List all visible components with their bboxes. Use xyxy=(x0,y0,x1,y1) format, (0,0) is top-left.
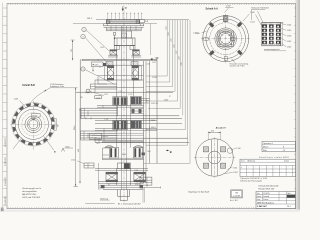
svg-text:B: B xyxy=(151,57,153,61)
svg-text:1.546: 1.546 xyxy=(173,44,175,48)
svg-text:1.545: 1.545 xyxy=(171,38,173,42)
svg-text:60: 60 xyxy=(108,185,110,187)
title text xyxy=(259,185,280,191)
svg-text:45: 45 xyxy=(81,97,83,99)
svg-text:1.545: 1.545 xyxy=(287,30,292,32)
spherical bearing crowns xyxy=(102,141,144,147)
ansicht V vertical slot xyxy=(211,140,217,176)
ansicht V outer circle xyxy=(196,139,234,177)
svg-text:Zeichnung gilt nur für: Zeichnung gilt nur für xyxy=(22,187,41,190)
svg-text:~: ~ xyxy=(255,167,256,169)
svg-text:1.562: 1.562 xyxy=(233,172,238,174)
svg-text:104: 104 xyxy=(211,131,214,133)
svg-text:1.537: 1.537 xyxy=(226,5,231,7)
svg-text:11: 11 xyxy=(283,150,285,152)
svg-text:V: V xyxy=(125,6,127,10)
ansicht V center bore xyxy=(208,151,221,164)
svg-text:1.522: 1.522 xyxy=(119,91,123,93)
svg-text:1: 1 xyxy=(83,29,84,31)
svg-text:~: ~ xyxy=(274,167,275,169)
svg-text:418: 418 xyxy=(78,149,80,152)
planet gear row2 left xyxy=(113,121,127,130)
svg-text:8: 8 xyxy=(283,146,284,148)
svg-text:~: ~ xyxy=(294,171,295,173)
svg-text:~: ~ xyxy=(281,171,282,173)
svg-text:~: ~ xyxy=(288,167,289,169)
housing lines mid xyxy=(97,105,144,107)
left main dimension line tall xyxy=(74,88,79,187)
casing flange long lines xyxy=(81,116,183,124)
scattered small annotations xyxy=(86,47,138,172)
svg-text:1.503: 1.503 xyxy=(135,170,139,172)
right side small labels xyxy=(149,32,197,129)
svg-text:Ø85: Ø85 xyxy=(229,35,232,37)
svg-text:1.544: 1.544 xyxy=(168,32,170,36)
svg-text:Bl. z. Zeichnung 3.545 067: Bl. z. Zeichnung 3.545 067 xyxy=(118,204,141,206)
svg-text:1.512: 1.512 xyxy=(71,159,75,161)
svg-text:Gegenlage mit Sperrkraft: Gegenlage mit Sperrkraft xyxy=(188,191,210,194)
lamella stack xyxy=(262,22,281,45)
revision table xyxy=(240,159,296,176)
svg-text:1.542: 1.542 xyxy=(250,12,255,14)
balloon 2 xyxy=(81,34,111,66)
svg-text:1.523: 1.523 xyxy=(105,119,109,121)
lower clutch drum xyxy=(81,121,118,141)
bearing row 2 left xyxy=(105,66,114,80)
svg-text:MAN Werk Augsburg: MAN Werk Augsburg xyxy=(257,201,274,204)
gear lower leaders xyxy=(13,136,56,153)
ansicht V centerlines xyxy=(194,137,235,178)
top border graduation ticks xyxy=(8,4,294,6)
left small fitting detail xyxy=(71,159,94,168)
lower wide plate lines xyxy=(95,138,189,142)
svg-text:~: ~ xyxy=(288,171,289,173)
callout staircase labels xyxy=(166,26,184,66)
svg-text:125: 125 xyxy=(71,49,73,52)
title block table xyxy=(256,192,296,209)
perpendicularity tolerance frame xyxy=(95,96,102,100)
svg-text:Ansicht V: Ansicht V xyxy=(216,126,227,129)
right drum pocket xyxy=(131,109,144,114)
svg-text:1.5060: 1.5060 xyxy=(149,120,155,122)
svg-text:2) Ersetzt durch Neuausgabe: 2) Ersetzt durch Neuausgabe xyxy=(240,180,262,183)
housing lines below row2 xyxy=(95,76,144,93)
left vertical dimension small xyxy=(71,40,75,60)
left seal block dark xyxy=(103,63,106,66)
svg-text:181,5: 181,5 xyxy=(87,18,93,20)
svg-text:1.509: 1.509 xyxy=(147,151,151,153)
bottom edge scan shadow xyxy=(0,210,300,213)
flange left label xyxy=(195,31,206,35)
svg-text:Änderung: Änderung xyxy=(248,160,255,163)
drawing frame border xyxy=(7,4,296,209)
left label box 1.513 xyxy=(90,133,109,139)
scale box xyxy=(231,190,243,198)
svg-text:B: B xyxy=(170,150,172,154)
shaft continuous bore lines xyxy=(117,26,134,190)
svg-text:Tag: Tag xyxy=(257,193,260,195)
svg-text:Krause: Krause xyxy=(263,199,268,201)
balloon 3 with label xyxy=(81,62,115,85)
svg-text:1.541: 1.541 xyxy=(250,22,255,24)
shaft bottom stub xyxy=(118,190,130,201)
casing right wall verticals xyxy=(144,59,158,183)
flange top lug xyxy=(223,16,228,22)
spherical bearing left block xyxy=(109,147,118,158)
flange right label box xyxy=(140,20,158,24)
planet gear block right xyxy=(130,97,141,105)
casing mid split line xyxy=(76,91,173,93)
svg-text:~: ~ xyxy=(255,171,256,173)
top flange lower plate xyxy=(104,24,144,31)
svg-text:2: 2 xyxy=(82,37,83,39)
right casing pocket xyxy=(141,98,149,103)
seal rings above bearings row2 xyxy=(106,62,138,66)
bottom sheet note xyxy=(118,187,144,205)
svg-text:1.544: 1.544 xyxy=(287,47,292,49)
svg-text:Bl. 2: Bl. 2 xyxy=(287,206,291,208)
drawing note text block xyxy=(22,187,41,199)
flange bore keyway xyxy=(231,37,236,40)
shaft shoulder under top block xyxy=(114,45,135,47)
left dimension line x98 xyxy=(98,163,100,190)
gear keyway xyxy=(32,117,35,119)
svg-text:1.561: 1.561 xyxy=(233,167,238,169)
svg-text:~: ~ xyxy=(268,167,269,169)
svg-text:3.545 067: 3.545 067 xyxy=(5,176,7,186)
svg-text:1.560: 1.560 xyxy=(236,148,240,150)
svg-text:a: a xyxy=(241,167,242,169)
svg-text:1.540: 1.540 xyxy=(195,33,200,35)
bottom flange seal blocks xyxy=(101,185,143,188)
svg-text:1.547: 1.547 xyxy=(176,50,178,54)
svg-text:Rott.: Rott. xyxy=(263,149,267,152)
gear rim circles xyxy=(12,103,56,147)
svg-text:4: 4 xyxy=(88,91,89,93)
svg-text:604,5: 604,5 xyxy=(74,126,76,131)
bearing row 3 right xyxy=(134,172,146,182)
svg-text:anziehen mit 70 Nm: anziehen mit 70 Nm xyxy=(230,64,246,67)
housing lines 168-170 xyxy=(95,169,148,171)
svg-text:~: ~ xyxy=(294,167,295,169)
svg-text:Ø225: Ø225 xyxy=(32,115,37,117)
svg-text:1.548: 1.548 xyxy=(179,56,181,60)
balloon 1 xyxy=(82,27,110,51)
casing shelf line xyxy=(98,64,144,66)
flange upper-left leader and note xyxy=(225,5,234,12)
shaft lower between bearings xyxy=(117,168,131,185)
svg-text:Gepr.: Gepr. xyxy=(257,199,261,201)
left bracket step xyxy=(91,77,118,89)
nested callout drop lines xyxy=(144,20,191,163)
view direction arrow V xyxy=(122,6,127,11)
flange right leaders xyxy=(243,9,255,23)
lamella bottom note xyxy=(264,48,286,51)
lamella right labels xyxy=(281,24,291,49)
svg-text:zusammengepresst: zusammengepresst xyxy=(264,48,280,51)
svg-text:S-B 5 und 170 0302: S-B 5 und 170 0302 xyxy=(22,197,41,199)
svg-text:1.520: 1.520 xyxy=(104,94,108,96)
svg-text:Rz25: Rz25 xyxy=(66,146,70,148)
svg-text:Datum: Datum xyxy=(284,160,290,163)
flange view centerlines xyxy=(201,14,251,64)
svg-text:Ø140: Ø140 xyxy=(122,154,126,156)
planet gear row2 right xyxy=(130,121,141,129)
svg-text:310,5: 310,5 xyxy=(135,184,140,186)
svg-text:Flender PLN 250: Flender PLN 250 xyxy=(259,188,276,191)
ansicht V dimension xyxy=(208,131,221,140)
svg-text:1.543: 1.543 xyxy=(166,26,168,30)
svg-text:12.03.81: 12.03.81 xyxy=(263,193,269,195)
ansicht V side pin xyxy=(227,148,240,154)
flange bottom note xyxy=(230,59,249,68)
svg-text:60: 60 xyxy=(57,125,59,127)
svg-text:Ers. f. Bl. 1: Ers. f. Bl. 1 xyxy=(230,199,238,202)
svg-text:die ausgewählte: die ausgewählte xyxy=(22,190,37,193)
svg-text:1.517: 1.517 xyxy=(152,62,156,64)
leader line left of flange xyxy=(73,23,104,25)
right casing labels xyxy=(146,62,156,65)
svg-text:Stückliste siehe EDV: Stückliste siehe EDV xyxy=(259,156,289,159)
main view vertical centerline xyxy=(123,6,125,203)
svg-text:1 Bl.: 1 Bl. xyxy=(235,192,239,194)
svg-text:1:73 GF: 1:73 GF xyxy=(233,195,241,197)
svg-text:~: ~ xyxy=(248,167,249,169)
bearing row 3 left xyxy=(106,172,118,182)
svg-text:Monat: Monat xyxy=(263,145,269,148)
left clutch drum xyxy=(81,105,118,118)
svg-text:~: ~ xyxy=(248,171,249,173)
flange bolt slots xyxy=(204,17,243,61)
table footer notes xyxy=(240,177,267,182)
svg-text:3.545 067: 3.545 067 xyxy=(5,195,7,205)
planet gear block left xyxy=(113,97,127,106)
spherical bearing right block xyxy=(133,147,142,158)
left dimension line 2 xyxy=(78,108,80,183)
bearing row 2 right xyxy=(132,66,141,80)
svg-text:BA-1/1237 V50,: BA-1/1237 V50, xyxy=(22,193,37,196)
svg-text:1.544: 1.544 xyxy=(287,25,292,27)
svg-text:~: ~ xyxy=(261,167,262,169)
section arrow B bottom xyxy=(166,150,172,155)
right detail box row3 xyxy=(140,177,152,187)
gear view centerlines xyxy=(11,101,59,150)
gear hub label box xyxy=(32,114,41,118)
right wall fitting xyxy=(142,151,151,156)
svg-text:Umlauf-Getriebewelle: Umlauf-Getriebewelle xyxy=(259,185,280,188)
outer sheet edge line left xyxy=(2,3,4,210)
gear teeth ring xyxy=(12,103,54,145)
bottom plate lines xyxy=(98,181,144,189)
top dimension header line xyxy=(96,19,189,21)
flange circles xyxy=(203,16,249,62)
gear hub block xyxy=(118,163,131,169)
svg-text:1.527 64: 1.527 64 xyxy=(151,103,158,105)
svg-text:3.545 067: 3.545 067 xyxy=(5,137,7,147)
left border graduation ticks xyxy=(3,8,7,206)
casing left wall xyxy=(79,59,81,131)
svg-text:1.546: 1.546 xyxy=(287,36,292,38)
gear right dimension bracket xyxy=(54,118,59,130)
gear top-left leader xyxy=(14,99,27,109)
casing top split lines xyxy=(82,59,157,60)
svg-text:~: ~ xyxy=(268,171,269,173)
svg-text:Schnitt A-A: Schnitt A-A xyxy=(206,8,219,11)
balloon 4 xyxy=(86,89,104,96)
operation info box xyxy=(262,141,295,151)
bearing row 3 dimension xyxy=(106,183,118,186)
lamella dimension line xyxy=(281,22,284,45)
flange hub square xyxy=(218,31,234,47)
shaft upper section xyxy=(113,31,135,50)
svg-text:1.530: 1.530 xyxy=(14,99,19,101)
left step under crown xyxy=(103,148,144,160)
svg-text:1.549: 1.549 xyxy=(181,62,183,66)
svg-text:3: 3 xyxy=(82,69,83,71)
svg-text:Operation 1: Operation 1 xyxy=(263,142,273,145)
label box leader to section B xyxy=(149,24,151,56)
lamella left leaders xyxy=(256,11,264,27)
svg-text:~: ~ xyxy=(274,171,275,173)
svg-text:~: ~ xyxy=(261,171,262,173)
top flange bolt studs xyxy=(107,13,142,20)
svg-text:Zust.: Zust. xyxy=(241,160,245,163)
top flange hatched block xyxy=(107,20,140,24)
section arrow B top xyxy=(151,57,159,61)
mid housing lines 128-130 xyxy=(95,129,157,142)
svg-text:3.545 067: 3.545 067 xyxy=(5,156,7,166)
bottom dimension leader xyxy=(134,182,161,189)
svg-text:3.545 067: 3.545 067 xyxy=(257,205,268,208)
svg-text:Schnitt B-B: Schnitt B-B xyxy=(22,84,35,87)
lamella detail title xyxy=(252,7,269,10)
bearing row 1 right xyxy=(131,50,141,57)
bottom border graduation ticks xyxy=(8,207,294,209)
right edge scan shadow xyxy=(295,0,301,212)
svg-text:Bearb.: Bearb. xyxy=(257,196,262,198)
svg-text:Gzla: Gzla xyxy=(287,193,290,195)
gear coupling label with leader xyxy=(32,84,78,102)
svg-text:1.511: 1.511 xyxy=(96,143,100,145)
ansicht V hatched pads xyxy=(203,147,225,169)
ansicht V lower leaders xyxy=(225,167,238,174)
svg-text:1.545: 1.545 xyxy=(287,41,292,43)
bottom note small left xyxy=(85,197,114,203)
svg-text:~: ~ xyxy=(281,167,282,169)
svg-text:Ölbohrung: Ölbohrung xyxy=(100,197,108,200)
surface finish symbol xyxy=(62,146,74,151)
right border graduation ticks xyxy=(294,8,296,206)
bearing row 1 left xyxy=(108,50,118,57)
svg-text:1.520: 1.520 xyxy=(152,77,157,79)
svg-text:1.536: 1.536 xyxy=(100,47,104,49)
svg-text:1.521: 1.521 xyxy=(129,94,133,96)
